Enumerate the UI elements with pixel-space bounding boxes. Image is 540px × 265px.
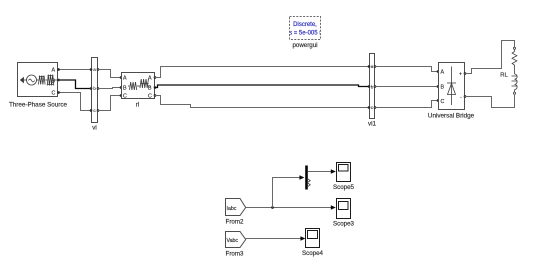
arrowhead into Scope5 [331,169,336,174]
svg-text:Scope5: Scope5 [333,184,355,191]
svg-text:A: A [123,76,127,82]
mux bar [305,166,308,190]
junction dots source ports [57,68,60,94]
svg-text:+: + [459,72,462,78]
svg-text:RL: RL [500,73,508,79]
svg-text:-: - [460,95,462,101]
powergui block [286,17,324,40]
svg-text:b: b [371,85,374,90]
vi port dots [90,68,100,112]
wire source A to vi a [58,69,92,71]
vi1 port dots [368,65,377,109]
From2 goto tag [226,199,246,216]
svg-text:Three-Phase Source: Three-Phase Source [9,102,68,109]
wire From3 to Scope4 [246,238,301,240]
vi1 measurement block [370,54,375,119]
Three-Phase Source port letters [52,68,56,97]
arrowhead into mux [299,175,304,180]
mux unconnected port marks [308,179,310,186]
wire vi a to rl A [98,70,122,78]
vi1 port letters [371,64,374,110]
wire vi c to rl C [98,96,122,111]
wire rl C long line to vi1 c [155,96,370,108]
svg-text:Universal Bridge: Universal Bridge [428,113,475,120]
svg-text:a: a [371,64,374,69]
wire mux output to Scope5 [308,171,332,173]
Scope3 block [337,199,351,219]
svg-text:C: C [123,94,127,100]
svg-text:Scope3: Scope3 [333,220,355,227]
svg-text:B: B [441,85,445,91]
vi port letters [93,67,96,113]
Three-Phase Source icon [21,75,58,86]
wire bridge - to RL load bottom [465,95,515,108]
wire source C to vi c [58,93,92,111]
wire rl A long line to vi1 a [155,67,370,78]
rl left port dots [120,76,123,97]
svg-text:B: B [148,86,152,92]
wire vi b to rl B [98,88,122,89]
wire vi1 b to bridge B [375,86,439,88]
Universal Bridge block [439,63,465,110]
arrowhead into Scope4 [300,236,305,241]
svg-text:B: B [123,86,127,92]
rl icon inductor [140,79,148,88]
svg-text:rl: rl [136,102,139,109]
branch junction on From2 wire [271,206,274,209]
svg-text:Ts = 5e-005 s.: Ts = 5e-005 s. [286,31,324,37]
rl block (three-phase series RL branch) [122,73,155,99]
wire vi1 c to bridge C [375,101,439,108]
RL load branch [512,47,518,94]
bridge left port dots [437,70,440,102]
svg-text:C: C [441,99,445,105]
svg-text:Discrete,: Discrete, [293,22,317,28]
svg-text:A: A [441,70,445,76]
wire From2 to Scope3 [246,207,332,209]
svg-text:A: A [52,68,56,74]
Scope5 block [337,163,351,182]
rl port letters [123,76,152,100]
From3 goto tag [226,232,246,248]
svg-text:Vabc: Vabc [227,238,239,244]
svg-text:Scope4: Scope4 [302,250,324,257]
wire bridge + to RL load top [465,41,515,74]
svg-text:From2: From2 [226,219,244,226]
arrowhead into Scope3 [331,205,336,210]
Universal Bridge diode icon [447,67,456,106]
wire vi1 a to bridge A [375,67,439,72]
bridge right port dots [464,72,467,98]
wire rl B long line to vi1 b (bold) [155,85,370,88]
vi measurement block [92,58,98,123]
svg-text:B: B [52,78,56,84]
svg-text:b: b [93,86,96,91]
rl right port dots [154,76,157,97]
svg-text:A: A [148,76,152,82]
wire branch up to mux input [273,178,300,208]
svg-text:C: C [52,91,56,97]
Three-Phase Source block [18,63,58,97]
Scope4 block [306,229,320,248]
svg-text:a: a [93,67,96,72]
Universal Bridge port letters [441,70,463,105]
svg-text:From3: From3 [226,251,244,258]
svg-text:Iabc: Iabc [227,206,237,212]
svg-text:powergui: powergui [292,42,317,49]
rl icon resistor [128,79,151,90]
svg-text:vi1: vi1 [368,121,376,128]
svg-text:C: C [148,94,152,100]
wire source B to vi b [58,80,92,89]
svg-text:vi: vi [92,125,96,132]
